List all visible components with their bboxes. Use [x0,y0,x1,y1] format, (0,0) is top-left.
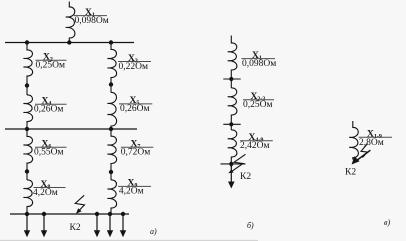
fault arrow bolt diagram v [352,144,371,165]
node top bus right [109,40,113,44]
node tick 2 diagram b [223,123,240,125]
arrow load 2 [43,214,45,231]
node bottom bus 5 [121,212,125,216]
label X2-3 diagram b [243,92,274,110]
label X1 diagram b [241,51,276,69]
arrow load 5 [122,214,124,231]
inductor X7 with wires [107,129,116,180]
top bus [5,42,134,44]
node dots diagram b [229,77,233,166]
svg-text:0,25Ом: 0,25Ом [243,100,273,110]
node between X6 X8 [25,169,29,173]
label X6 [34,140,67,158]
fault bolt K2 diagram a [75,195,84,214]
node top bus center [67,40,71,44]
scan border bottom [0,239,258,241]
node middle bus right [109,127,113,131]
node bottom bus 1 [25,212,29,216]
svg-text:0,098Ом: 0,098Ом [75,16,109,26]
inductor X6 with wires [23,129,32,180]
svg-text:0,098Ом: 0,098Ом [242,59,276,69]
arrow down K2 diagram b [228,164,235,189]
label X1-9 diagram v [359,130,392,148]
node tick 1 diagram b [223,78,240,80]
fault tick diagram b [221,163,246,165]
label X1 [74,8,109,26]
label X3 [118,54,151,72]
load arrows below bottom bus [24,214,126,237]
label X9 [118,179,151,197]
wire between tick1 and X2-3 [230,79,232,88]
svg-text:2,8Ом: 2,8Ом [359,138,384,148]
node between X2 X4 [25,83,29,87]
inductor X1-9 diagram v with wires [349,121,358,160]
node top bus left [25,40,29,44]
node between X3 X5 [109,82,113,86]
svg-text:К2: К2 [70,223,81,233]
arrow load 1 [26,214,28,231]
arrow load 3 [96,214,98,231]
node between X7 X9 [109,170,113,174]
svg-text:4,2Ом: 4,2Ом [33,188,58,198]
svg-text:0,25Ом: 0,25Ом [36,61,66,71]
svg-text:в): в) [384,218,390,227]
label X4-9 diagram b [240,133,273,151]
inductor X4 with wires [23,95,32,129]
label X2 [36,53,67,71]
inductor X5 with wires [107,92,116,129]
wire between tick2 and X4-9 [230,124,232,130]
label X8 [33,180,66,198]
svg-text:0,22Ом: 0,22Ом [119,62,149,72]
label X4 [34,97,67,115]
inductor X3 with wires [107,43,116,93]
svg-text:К2: К2 [345,168,356,178]
svg-text:0,26Ом: 0,26Ом [34,105,64,115]
inductor X4-9 diagram b with wires [228,130,237,164]
inductor X2-3 diagram b with wires [228,88,237,124]
small arrowhead at fault tick diagram b [229,164,233,167]
svg-text:0,55Ом: 0,55Ом [34,148,64,158]
label X7 [121,140,154,158]
middle bus [5,128,137,130]
node bottom bus 3 [95,212,99,216]
junction dots diagram a [25,40,125,216]
node bottom bus 4 [108,212,112,216]
svg-text:а): а) [150,227,157,236]
svg-text:б): б) [247,221,254,230]
svg-text:4,2Ом: 4,2Ом [119,187,144,197]
arrow load 4 [109,214,111,231]
node middle bus left [25,127,29,131]
svg-text:0,26Ом: 0,26Ом [120,104,150,114]
label X5 [119,96,152,114]
svg-text:0,72Ом: 0,72Ом [121,148,151,158]
svg-text:К2: К2 [240,172,251,182]
inductor X9 with wires [107,180,116,214]
node bottom bus 2 [42,212,46,216]
bottom bus [10,213,129,215]
fault bolt diagram b [228,154,245,173]
inductor X8 with wires [23,180,32,214]
inductor X2 with wires [23,43,32,96]
inductor X1 diagram b with feeder [228,36,237,80]
svg-text:2,42Ом: 2,42Ом [240,141,270,151]
inductor X1 with feeder wire [66,2,75,43]
